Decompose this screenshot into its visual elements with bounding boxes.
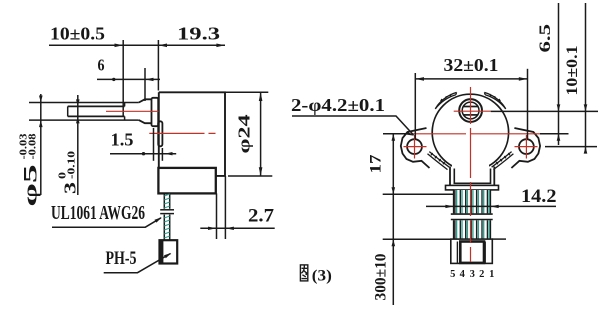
label 3 tolerance (rotated) (58, 151, 80, 194)
dimension phi24 (225, 91, 268, 93)
shaft circle (462, 102, 479, 119)
terminal housing (side view) (158, 168, 215, 194)
svg-text:3: 3 (61, 182, 80, 194)
svg-text:φ5: φ5 (21, 165, 42, 207)
can seam lower-right (492, 152, 514, 170)
motor body (side view) (159, 92, 225, 176)
svg-text:2: 2 (479, 269, 484, 280)
shaft boss outer circle (459, 99, 482, 122)
PH-5 connector (side view) (160, 240, 178, 263)
ribbon cable (454, 190, 491, 239)
ribbon break symbol (451, 213, 493, 215)
wire break symbol (160, 209, 174, 211)
svg-text:6: 6 (98, 56, 105, 75)
shaft centerline (red) (106, 110, 159, 112)
connector (front view) (451, 239, 493, 263)
svg-text:1.5: 1.5 (111, 130, 134, 150)
svg-text:32±0.1: 32±0.1 (444, 55, 499, 75)
motor body circle (432, 94, 508, 170)
svg-text:300±10: 300±10 (373, 254, 390, 301)
svg-text:5: 5 (450, 269, 455, 280)
dimension 2.7 (216, 193, 218, 239)
svg-text:PH-5: PH-5 (106, 249, 137, 269)
can crimp tab upper-right (484, 92, 505, 109)
can seam lower-left (428, 152, 450, 170)
dimension 32±0.1 (414, 73, 416, 139)
svg-text:17: 17 (368, 155, 385, 174)
front boss (152, 98, 159, 126)
label phi24 (rotated) (235, 114, 254, 154)
svg-text:3: 3 (470, 269, 475, 280)
extension line flat end (x=145) (144, 68, 146, 101)
left mounting ear (401, 128, 430, 168)
shaft outer top line (29, 102, 139, 104)
can crimp tab upper-left (435, 92, 456, 109)
svg-text:4: 4 (460, 269, 466, 280)
dimension 6.5 (558, 3, 560, 145)
svg-text:φ24: φ24 (235, 114, 254, 154)
svg-text:6.5: 6.5 (537, 24, 554, 53)
shaft horizontal centerline (454, 110, 491, 112)
shaft outer bottom line (29, 119, 139, 121)
lead wire (side view) (164, 193, 169, 239)
svg-text:10±0.1: 10±0.1 (564, 46, 581, 96)
extension line shaft tip (x=123) (122, 40, 124, 117)
dimension 14.2 (426, 205, 556, 207)
dimension 3 (flats) vertical line with arrows (77, 95, 79, 195)
housing (front view) (450, 167, 494, 186)
left hole crosshair (404, 146, 427, 148)
svg-text:(3): (3) (312, 268, 332, 285)
shaft tip edge (67, 106, 69, 116)
pin numbers 5 4 3 2 1 (450, 269, 494, 280)
figure label 图(3) (300, 265, 307, 281)
dimension phi5 (shaft) vertical line with arrows (40, 94, 42, 195)
svg-text:UL1061 AWG26: UL1061 AWG26 (51, 202, 145, 224)
dimension 6 (97, 78, 160, 81)
svg-text:14.2: 14.2 (521, 187, 557, 207)
svg-text:2-φ4.2±0.1: 2-φ4.2±0.1 (291, 95, 385, 115)
extension line boss face (x=158.4) (157, 40, 159, 91)
shaft step (124, 103, 126, 107)
vertical centerline (470, 87, 472, 262)
right mounting hole (519, 139, 534, 154)
svg-text:19.3: 19.3 (177, 24, 220, 44)
red centerlines right view (404, 87, 541, 262)
right mounting ear (511, 128, 540, 168)
black centerline extensions (383, 133, 406, 135)
label phi5 tolerance (rotated) (19, 134, 42, 207)
svg-text:2.7: 2.7 (248, 206, 275, 227)
ribbon stripes (455, 190, 489, 239)
shaft taper to collar (139, 99, 152, 123)
dimension 17 / 300±10 (383, 193, 454, 195)
horizontal body centerline (408, 133, 540, 135)
dimension 10±0.1 (585, 3, 587, 153)
svg-text:10±0.5: 10±0.5 (50, 24, 105, 44)
svg-text:1: 1 (489, 269, 494, 280)
right hole crosshair (515, 146, 538, 148)
housing interior mask (452, 164, 489, 185)
left mounting hole (407, 139, 422, 154)
body centerline (red) (149, 132, 215, 134)
lower locating tab (158, 121, 162, 146)
shaft flat bottom line (68, 115, 125, 117)
svg-text:-0.08: -0.08 (28, 134, 39, 160)
dimension line top (10±0.5 / 19.3) (49, 44, 225, 48)
shaft flats (463, 106, 478, 108)
svg-text:-0.10: -0.10 (67, 151, 78, 179)
shaft flat top line (68, 105, 125, 107)
